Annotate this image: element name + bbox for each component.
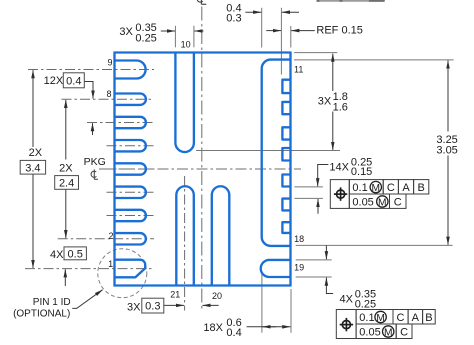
svg-text:4X: 4X	[50, 249, 64, 261]
svg-text:12X: 12X	[44, 75, 64, 87]
svg-text:B: B	[425, 312, 432, 324]
pin 7	[115, 117, 146, 128]
ext line tooth gap lower	[294, 197, 323, 199]
svg-text:18X: 18X	[203, 322, 223, 334]
svg-text:2X: 2X	[59, 163, 73, 175]
svg-text:A: A	[412, 312, 420, 324]
svg-text:B: B	[418, 182, 425, 194]
svg-text:14X: 14X	[329, 162, 349, 174]
ext line body right top	[290, 26, 292, 48]
box 0.4	[63, 73, 84, 88]
svg-text:0.3: 0.3	[145, 301, 160, 313]
dim REF 0.15 arrows	[266, 30, 281, 32]
svg-text:0.05: 0.05	[352, 197, 373, 209]
svg-text:REF 0.15: REF 0.15	[316, 25, 362, 37]
ext line comb inner bottom	[261, 272, 263, 333]
svg-text:3X: 3X	[318, 96, 332, 108]
svg-text:0.3: 0.3	[226, 13, 241, 25]
ext line pin19 top	[296, 259, 332, 261]
pin 9	[115, 61, 146, 79]
pin 1 centerline	[25, 268, 154, 270]
svg-text:3X: 3X	[127, 301, 141, 313]
dim 3X 0.35/0.25 arrows	[161, 30, 175, 32]
ext line slot10 right	[193, 26, 195, 48]
position symbol upper	[337, 190, 345, 198]
svg-text:21: 21	[170, 290, 180, 300]
PKG horizontal centerline	[99, 168, 301, 170]
ext line comb inner top	[261, 8, 263, 48]
dim 14X 0.25/0.15 leader	[318, 165, 329, 187]
svg-text:0.1: 0.1	[359, 312, 374, 324]
svg-text:0.4: 0.4	[66, 75, 81, 87]
centerline symbol top	[197, 0, 206, 4]
svg-text:M: M	[384, 327, 393, 338]
ext line pin19 bottom	[296, 276, 332, 278]
tooth 13	[282, 102, 290, 114]
pin 5	[115, 163, 146, 174]
pin 21 centerline	[184, 176, 186, 311]
ext line top edge right	[294, 52, 337, 54]
svg-text:A: A	[402, 182, 410, 194]
pin 9 centerline	[28, 69, 154, 71]
svg-text:PKG: PKG	[84, 156, 106, 168]
body top edge	[114, 51, 291, 53]
ext line inner bottom right	[296, 244, 453, 246]
svg-text:1.6: 1.6	[333, 101, 348, 113]
svg-text:C: C	[400, 327, 408, 339]
pin 6	[115, 140, 146, 151]
pin 5 centerline	[107, 168, 155, 170]
svg-text:2: 2	[108, 231, 113, 241]
PKG vertical centerline	[201, 7, 203, 311]
pin 2	[115, 233, 146, 244]
svg-text:3X: 3X	[119, 26, 133, 38]
ext line slot10 left	[174, 26, 176, 48]
pin 4	[115, 187, 146, 198]
svg-text:C: C	[387, 182, 395, 194]
svg-text:2.4: 2.4	[59, 178, 74, 190]
svg-text:18: 18	[294, 234, 304, 244]
pin 19	[261, 260, 291, 277]
svg-text:10: 10	[181, 40, 191, 50]
dim 2X 2.4 line	[65, 100, 67, 160]
svg-text:4X: 4X	[340, 293, 354, 305]
svg-text:0.5: 0.5	[68, 248, 83, 260]
ext line body right bottom	[290, 289, 292, 333]
tooth 16	[282, 175, 290, 187]
dim 3.25/3.05 line	[447, 61, 449, 132]
pin 10 slot	[175, 53, 194, 153]
cropped artifact bar at top edge	[317, 0, 385, 2]
lower tolerance frame	[336, 310, 435, 339]
pin 3 centerline	[107, 215, 155, 217]
ext line teeth left top	[280, 8, 282, 75]
pin 21 slot	[176, 186, 194, 285]
centerline symbol PKG	[91, 169, 98, 179]
svg-text:19: 19	[294, 262, 304, 272]
tooth 18	[282, 222, 290, 233]
dim 4X 0.35/0.25 arrows	[325, 245, 327, 259]
svg-text:0.1: 0.1	[352, 182, 367, 194]
pin 1 with ID chamfer	[115, 260, 146, 278]
pin 8	[115, 94, 146, 105]
dim 3X 1.8/1.6 line	[332, 54, 334, 91]
svg-text:0.15: 0.15	[351, 166, 372, 178]
pin 1 ID dashed circle	[98, 249, 147, 298]
dim 2X 3.4 line	[32, 70, 34, 147]
tooth 12	[282, 80, 290, 93]
svg-text:3.4: 3.4	[25, 162, 40, 174]
svg-text:M: M	[378, 197, 387, 208]
body bottom edge	[114, 284, 291, 286]
dim 18X 0.6/0.4 line	[247, 326, 276, 328]
body left edge	[113, 52, 115, 287]
pin 8 centerline	[62, 98, 155, 100]
dim 3X 0.3 arrows	[164, 304, 184, 306]
svg-text:0.25: 0.25	[355, 298, 376, 310]
box 0.3	[142, 298, 164, 313]
dim 0.4/0.3 arrows	[245, 11, 261, 13]
box 3.4	[20, 160, 45, 174]
svg-text:9: 9	[107, 58, 112, 68]
tooth 17	[282, 199, 290, 211]
pin 3	[115, 210, 146, 221]
svg-text:2X: 2X	[29, 147, 43, 159]
pin 20 slot	[212, 186, 230, 285]
svg-text:(OPTIONAL): (OPTIONAL)	[13, 309, 70, 320]
svg-text:8: 8	[106, 89, 111, 99]
svg-text:0.4: 0.4	[226, 327, 241, 339]
svg-text:C: C	[397, 312, 405, 324]
ext line inner top right	[294, 59, 454, 61]
pin 6 centerline	[107, 145, 155, 147]
svg-text:M: M	[376, 313, 385, 324]
pin 2 centerline	[58, 238, 154, 240]
svg-text:0.25: 0.25	[135, 32, 156, 44]
ext line slot10 bottom	[196, 150, 340, 152]
dim 4X 0.5 arrow	[64, 269, 66, 286]
tooth 15	[282, 148, 290, 161]
right comb inner contour	[262, 60, 291, 246]
tooth 14	[282, 127, 290, 139]
pin 7 centerline	[87, 122, 154, 124]
svg-text:PIN 1 ID: PIN 1 ID	[33, 297, 71, 308]
position symbol lower	[342, 321, 350, 329]
pin 4 centerline	[107, 191, 155, 193]
svg-text:11: 11	[294, 65, 303, 75]
svg-text:M: M	[372, 183, 381, 194]
svg-text:C: C	[394, 197, 402, 209]
leader PIN 1 ID	[72, 290, 102, 309]
svg-text:1: 1	[108, 259, 113, 269]
svg-text:3.05: 3.05	[436, 144, 457, 156]
body right edge	[289, 52, 291, 287]
box 0.5	[64, 247, 86, 260]
upper tolerance frame	[330, 180, 429, 209]
box 2.4	[55, 176, 79, 190]
dim 12X 0.4 leader	[84, 82, 93, 99]
svg-text:0.05: 0.05	[359, 327, 380, 339]
ext line tooth gap upper	[294, 186, 323, 188]
svg-text:20: 20	[212, 291, 222, 301]
